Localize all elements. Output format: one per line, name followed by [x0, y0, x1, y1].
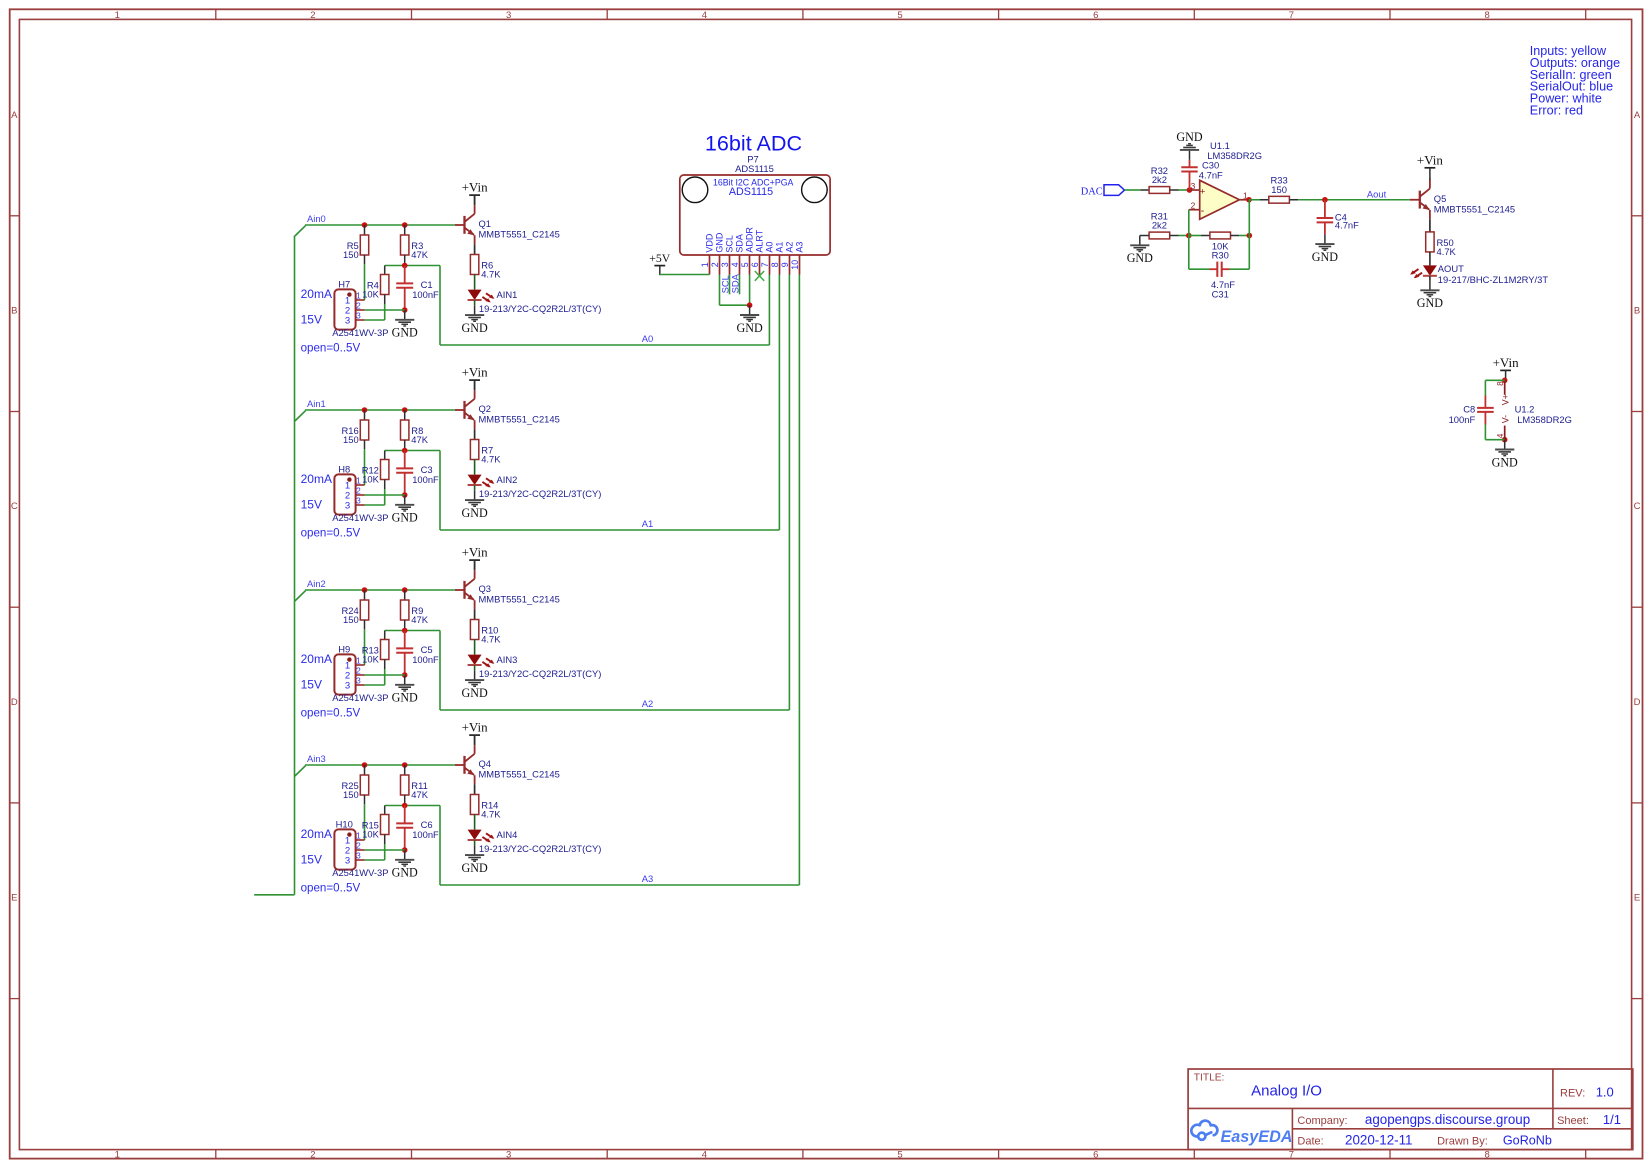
svg-text:LM358DR2G: LM358DR2G: [1517, 414, 1572, 425]
LED AIN1: [468, 289, 602, 314]
svg-text:+Vin: +Vin: [462, 720, 489, 735]
svg-text:GND: GND: [1312, 250, 1338, 264]
svg-text:19-213/Y2C-CQ2R2L/3T(CY): 19-213/Y2C-CQ2R2L/3T(CY): [479, 668, 601, 679]
svg-text:20mA: 20mA: [301, 472, 332, 486]
resistor R10: [470, 620, 501, 645]
wire: [384, 660, 386, 686]
svg-text:8: 8: [770, 262, 780, 267]
svg-text:EasyEDA: EasyEDA: [1221, 1128, 1293, 1146]
svg-text:1: 1: [115, 10, 120, 21]
svg-text:Company:: Company:: [1297, 1115, 1347, 1127]
svg-text:5: 5: [897, 10, 902, 21]
svg-text:C: C: [11, 501, 18, 512]
transistor Q1: [465, 205, 560, 244]
wire: [474, 665, 476, 670]
svg-text:3: 3: [345, 315, 350, 326]
svg-text:GND: GND: [392, 511, 418, 525]
svg-text:GoRoNb: GoRoNb: [1503, 1134, 1552, 1148]
wire net row: [385, 806, 440, 886]
svg-text:GND: GND: [461, 506, 487, 520]
svg-text:2: 2: [1191, 200, 1196, 210]
svg-text:+Vin: +Vin: [462, 365, 489, 380]
svg-text:Q1: Q1: [479, 218, 492, 229]
svg-text:10K: 10K: [362, 289, 379, 300]
junction: [402, 847, 408, 853]
svg-text:Ain1: Ain1: [307, 398, 326, 409]
wire: [404, 590, 406, 600]
svg-text:4.7K: 4.7K: [1437, 246, 1457, 257]
svg-text:15V: 15V: [301, 313, 322, 327]
svg-text:3: 3: [506, 10, 511, 21]
wire A0 vertical: [768, 275, 770, 346]
resistor R16: [341, 420, 368, 445]
svg-text:+Vin: +Vin: [462, 180, 489, 195]
wire: [364, 440, 366, 485]
ground: [461, 845, 487, 875]
svg-text:3: 3: [506, 1149, 511, 1160]
svg-text:9: 9: [780, 262, 790, 267]
svg-text:A1: A1: [642, 518, 653, 529]
svg-text:-: -: [1201, 205, 1205, 217]
wire A2 net: [440, 709, 789, 711]
wire feedback right: [1248, 200, 1250, 269]
svg-text:V-: V-: [1500, 415, 1510, 423]
wire: [474, 840, 476, 845]
wire: [384, 806, 386, 815]
legend note: [1530, 44, 1620, 118]
svg-text:A1: A1: [775, 242, 785, 253]
junction: [402, 448, 408, 454]
svg-text:8: 8: [1485, 10, 1490, 21]
wire A1 net: [440, 529, 779, 531]
wire: [365, 309, 405, 311]
resistor R6: [470, 255, 501, 280]
wire: [365, 859, 385, 861]
svg-text:47K: 47K: [411, 789, 428, 800]
wire: [365, 494, 405, 496]
svg-text:REV:: REV:: [1560, 1087, 1585, 1099]
wire Ain3 net: [295, 765, 455, 776]
wire: [474, 609, 476, 619]
svg-text:Sheet:: Sheet:: [1557, 1115, 1589, 1127]
svg-text:Drawn By:: Drawn By:: [1437, 1136, 1488, 1148]
svg-text:ALRT: ALRT: [755, 229, 765, 252]
resistor R13: [362, 640, 389, 665]
svg-text:10K: 10K: [362, 654, 379, 665]
svg-text:3: 3: [356, 676, 361, 686]
power flag +Vin: [1417, 152, 1444, 177]
wire: [1410, 199, 1420, 201]
power flag +Vin: [462, 180, 489, 205]
svg-text:open=0..5V: open=0..5V: [301, 707, 361, 720]
svg-text:6: 6: [750, 262, 760, 267]
svg-text:1: 1: [356, 831, 361, 841]
svg-text:100nF: 100nF: [412, 289, 439, 300]
resistor R50: [1426, 232, 1457, 257]
svg-text:+Vin: +Vin: [1493, 355, 1520, 370]
LED AIN2: [468, 474, 602, 499]
svg-text:1.0: 1.0: [1596, 1084, 1614, 1099]
svg-text:5: 5: [740, 262, 750, 267]
svg-text:AIN2: AIN2: [497, 474, 518, 485]
IC P7 ADS1115: [680, 154, 830, 275]
wire: [455, 224, 465, 226]
svg-text:47K: 47K: [411, 614, 428, 625]
svg-text:20mA: 20mA: [301, 652, 332, 666]
svg-text:4: 4: [1495, 433, 1505, 438]
svg-text:R30: R30: [1212, 250, 1229, 261]
svg-text:15V: 15V: [301, 678, 322, 692]
svg-text:3: 3: [345, 500, 350, 511]
resistor R30: [1210, 232, 1231, 260]
svg-text:2: 2: [356, 301, 361, 311]
svg-text:E: E: [11, 893, 17, 904]
wire: [404, 795, 406, 806]
ground: [1417, 281, 1443, 311]
svg-text:V+: V+: [1500, 394, 1510, 405]
svg-text:open=0..5V: open=0..5V: [301, 342, 361, 355]
header H7 A2541WV-3P: [332, 278, 388, 338]
capacitor C3: [396, 451, 439, 496]
wire: [384, 480, 386, 506]
ground: [736, 305, 762, 335]
power flag +Vin: [1493, 355, 1520, 380]
wire: [1170, 189, 1190, 191]
svg-text:100nF: 100nF: [412, 474, 439, 485]
junction: [747, 302, 753, 308]
wire: [1429, 276, 1431, 281]
svg-text:DAC: DAC: [1081, 186, 1103, 197]
svg-text:10K: 10K: [362, 474, 379, 485]
wire Ain2 net: [295, 590, 455, 601]
ground: [392, 850, 418, 880]
wire ADC ground net: [720, 275, 750, 306]
wire: [1170, 235, 1189, 237]
svg-text:2: 2: [356, 486, 361, 496]
ground: [1127, 236, 1153, 266]
wire: [365, 674, 405, 676]
svg-text:19-217/BHC-ZL1M2RY/3T: 19-217/BHC-ZL1M2RY/3T: [1438, 274, 1549, 285]
resistor R11: [401, 775, 429, 800]
wire: [384, 631, 386, 640]
wire: [474, 300, 476, 305]
wire: [1231, 235, 1250, 237]
wire: [474, 380, 476, 390]
svg-text:MMBT5551_C2145: MMBT5551_C2145: [479, 769, 560, 780]
svg-text:A2541WV-3P: A2541WV-3P: [332, 512, 388, 523]
svg-text:SDA: SDA: [729, 273, 740, 293]
wire: [364, 765, 366, 775]
ground: [1312, 234, 1338, 264]
svg-text:150: 150: [343, 789, 359, 800]
svg-text:B: B: [1634, 305, 1640, 316]
svg-text:MMBT5551_C2145: MMBT5551_C2145: [479, 229, 560, 240]
svg-text:E: E: [1634, 893, 1640, 904]
wire: [404, 410, 406, 420]
junction: [402, 492, 408, 498]
svg-text:2k2: 2k2: [1152, 174, 1167, 185]
capacitor C1: [396, 266, 439, 311]
wire: [1429, 219, 1431, 232]
svg-text:4: 4: [702, 10, 707, 21]
ground: [461, 305, 487, 335]
svg-text:20mA: 20mA: [301, 287, 332, 301]
port DAC: [1081, 185, 1125, 198]
svg-text:A2541WV-3P: A2541WV-3P: [332, 327, 388, 338]
transistor Q2: [465, 390, 560, 429]
wire: [384, 266, 386, 275]
wire: [365, 684, 385, 686]
wire Aout net: [1289, 199, 1409, 201]
svg-text:agopengps.discourse.group: agopengps.discourse.group: [1365, 1112, 1530, 1127]
svg-text:1: 1: [115, 1149, 120, 1160]
svg-text:A3: A3: [642, 873, 653, 884]
wire: [474, 735, 476, 745]
svg-text:Date:: Date:: [1297, 1136, 1323, 1148]
junction: [1502, 437, 1508, 443]
svg-text:D: D: [1634, 697, 1641, 708]
wire: [474, 244, 476, 254]
wire: [384, 835, 386, 861]
svg-text:C8: C8: [1463, 403, 1475, 414]
svg-text:4.7K: 4.7K: [481, 634, 501, 645]
svg-text:Q3: Q3: [479, 583, 492, 594]
svg-text:TITLE:: TITLE:: [1194, 1072, 1225, 1083]
resistor R3: [401, 235, 429, 260]
svg-text:5: 5: [897, 1149, 902, 1160]
svg-text:GND: GND: [461, 686, 487, 700]
wire A1 vertical: [778, 275, 780, 531]
svg-text:1: 1: [356, 656, 361, 666]
svg-text:ADS1115: ADS1115: [735, 163, 774, 174]
junction: [1322, 197, 1328, 203]
op-amp U1.1 LM358DR2G: [1189, 140, 1262, 220]
svg-text:100nF: 100nF: [412, 654, 439, 665]
svg-text:GND: GND: [715, 232, 725, 253]
svg-text:3: 3: [356, 851, 361, 861]
svg-text:Error: red: Error: red: [1530, 104, 1583, 118]
svg-text:3: 3: [356, 496, 361, 506]
svg-text:2k2: 2k2: [1152, 220, 1167, 231]
capacitor C8: [1449, 396, 1494, 426]
junction: [402, 307, 408, 313]
svg-text:H9: H9: [338, 643, 350, 654]
wire: [474, 275, 476, 290]
svg-text:Q5: Q5: [1434, 193, 1447, 204]
svg-text:4.7K: 4.7K: [481, 269, 501, 280]
svg-text:ADS1115: ADS1115: [729, 186, 773, 198]
wire: [1485, 380, 1504, 439]
svg-text:6: 6: [1093, 10, 1098, 21]
junction: [402, 762, 408, 768]
svg-text:ADDR: ADDR: [745, 227, 755, 253]
power flag +Vin: [462, 720, 489, 745]
ground: [392, 675, 418, 705]
svg-text:10: 10: [790, 260, 800, 270]
wire: [364, 620, 366, 665]
wire: [1140, 235, 1149, 237]
svg-text:150: 150: [343, 249, 359, 260]
junction: [402, 263, 408, 269]
resistor R12: [362, 460, 389, 485]
ground: [461, 670, 487, 700]
wire: [365, 849, 405, 851]
svg-text:+Vin: +Vin: [462, 545, 489, 560]
svg-text:+: +: [1200, 186, 1206, 197]
svg-text:150: 150: [1271, 184, 1287, 195]
svg-text:8: 8: [1485, 1149, 1490, 1160]
wire: [455, 409, 465, 411]
svg-text:47K: 47K: [411, 434, 428, 445]
svg-text:10K: 10K: [362, 829, 379, 840]
junction: [362, 587, 368, 593]
header H10 A2541WV-3P: [332, 818, 388, 878]
net label SCL wire: [719, 275, 730, 295]
svg-text:7: 7: [760, 262, 770, 267]
capacitor C5: [396, 631, 439, 676]
net label SDA wire: [729, 273, 740, 294]
wire: [474, 485, 476, 490]
svg-text:GND: GND: [392, 326, 418, 340]
wire: [474, 640, 476, 655]
ground: [1492, 440, 1518, 470]
svg-text:3: 3: [356, 311, 361, 321]
power flag +Vin: [462, 365, 489, 390]
svg-text:LM358DR2G: LM358DR2G: [1207, 150, 1262, 161]
wire feedback left: [1188, 210, 1190, 270]
LED AIN4: [468, 829, 602, 854]
svg-text:open=0..5V: open=0..5V: [301, 882, 361, 895]
capacitor C30: [1181, 159, 1223, 190]
transistor Q4: [465, 745, 560, 784]
wire A3 net: [440, 884, 799, 886]
svg-text:H7: H7: [338, 278, 350, 289]
header H8 A2541WV-3P: [332, 463, 388, 523]
svg-text:4: 4: [702, 1149, 707, 1160]
svg-text:Aout: Aout: [1367, 188, 1387, 199]
wire net row: [385, 266, 440, 346]
svg-text:GND: GND: [461, 321, 487, 335]
svg-text:C: C: [1634, 501, 1641, 512]
svg-text:4.7nF: 4.7nF: [1199, 169, 1223, 180]
svg-text:AIN1: AIN1: [497, 289, 518, 300]
junction: [362, 222, 368, 228]
svg-text:150: 150: [343, 614, 359, 625]
svg-text:Ain3: Ain3: [307, 753, 326, 764]
svg-text:4.7K: 4.7K: [481, 454, 501, 465]
capacitor C31: [1189, 262, 1250, 300]
resistor R5: [343, 235, 369, 260]
wire A2 vertical: [788, 275, 790, 711]
wire net row: [385, 631, 440, 711]
resistor R33: [1269, 175, 1290, 204]
svg-text:GND: GND: [736, 321, 762, 335]
svg-text:C31: C31: [1212, 288, 1229, 299]
svg-text:A0: A0: [765, 242, 775, 253]
wire: [404, 225, 406, 235]
wire left bus: [254, 236, 294, 895]
wire: [474, 815, 476, 830]
svg-text:GND: GND: [1176, 130, 1202, 144]
wire: [384, 451, 386, 460]
resistor R24: [341, 600, 368, 625]
wire: [1125, 189, 1150, 191]
svg-text:20mA: 20mA: [301, 827, 332, 841]
svg-text:GND: GND: [461, 861, 487, 875]
svg-text:7: 7: [1289, 1149, 1294, 1160]
resistor R15: [362, 815, 389, 840]
capacitor C6: [396, 806, 439, 851]
wire: [1429, 177, 1431, 180]
wire: [659, 274, 661, 277]
svg-text:1: 1: [700, 262, 710, 267]
transistor Q3: [465, 570, 560, 609]
svg-text:Q4: Q4: [479, 758, 492, 769]
svg-text:2: 2: [356, 841, 361, 851]
resistor R14: [470, 795, 501, 820]
wire: [404, 765, 406, 775]
svg-text:A2: A2: [785, 242, 795, 253]
resistor R7: [470, 440, 501, 465]
wire: [1429, 252, 1431, 266]
wire: [474, 784, 476, 794]
svg-text:U1.2: U1.2: [1515, 403, 1535, 414]
resistor R25: [341, 775, 368, 800]
power flag +Vin: [462, 545, 489, 570]
svg-text:AIN3: AIN3: [497, 654, 518, 665]
ground: [461, 490, 487, 520]
LED AOUT: [1410, 263, 1548, 285]
junction: [1246, 197, 1252, 203]
svg-text:VDD: VDD: [705, 233, 715, 253]
LED AIN3: [468, 654, 602, 679]
svg-text:H10: H10: [336, 818, 353, 829]
svg-text:3: 3: [1191, 181, 1196, 191]
wire: [365, 504, 385, 506]
svg-text:open=0..5V: open=0..5V: [301, 527, 361, 540]
svg-text:8: 8: [1495, 381, 1505, 386]
svg-text:7: 7: [1289, 10, 1294, 21]
wire: [364, 225, 366, 235]
svg-text:SDA: SDA: [735, 234, 745, 253]
svg-text:+Vin: +Vin: [1417, 152, 1444, 167]
svg-text:GND: GND: [1127, 251, 1153, 265]
svg-text:A0: A0: [642, 333, 653, 344]
svg-text:47K: 47K: [411, 249, 428, 260]
svg-text:2: 2: [356, 666, 361, 676]
svg-text:2: 2: [310, 1149, 315, 1160]
svg-text:15V: 15V: [301, 853, 322, 867]
svg-text:4.7K: 4.7K: [481, 809, 501, 820]
svg-text:GND: GND: [392, 691, 418, 705]
junction: [402, 222, 408, 228]
svg-text:A2541WV-3P: A2541WV-3P: [332, 692, 388, 703]
svg-text:1: 1: [356, 291, 361, 301]
svg-text:100nF: 100nF: [412, 829, 439, 840]
junction: [1502, 378, 1508, 384]
svg-text:GND: GND: [1492, 455, 1518, 469]
ground: [1176, 130, 1202, 160]
svg-text:Ain0: Ain0: [307, 213, 326, 224]
svg-text:A3: A3: [795, 242, 805, 253]
svg-text:3: 3: [345, 855, 350, 866]
svg-text:2: 2: [710, 262, 720, 267]
wire: [404, 620, 406, 631]
svg-text:D: D: [11, 697, 18, 708]
no-connect X pin 6: [755, 271, 764, 281]
wire: [404, 255, 406, 266]
svg-text:GND: GND: [1417, 296, 1443, 310]
